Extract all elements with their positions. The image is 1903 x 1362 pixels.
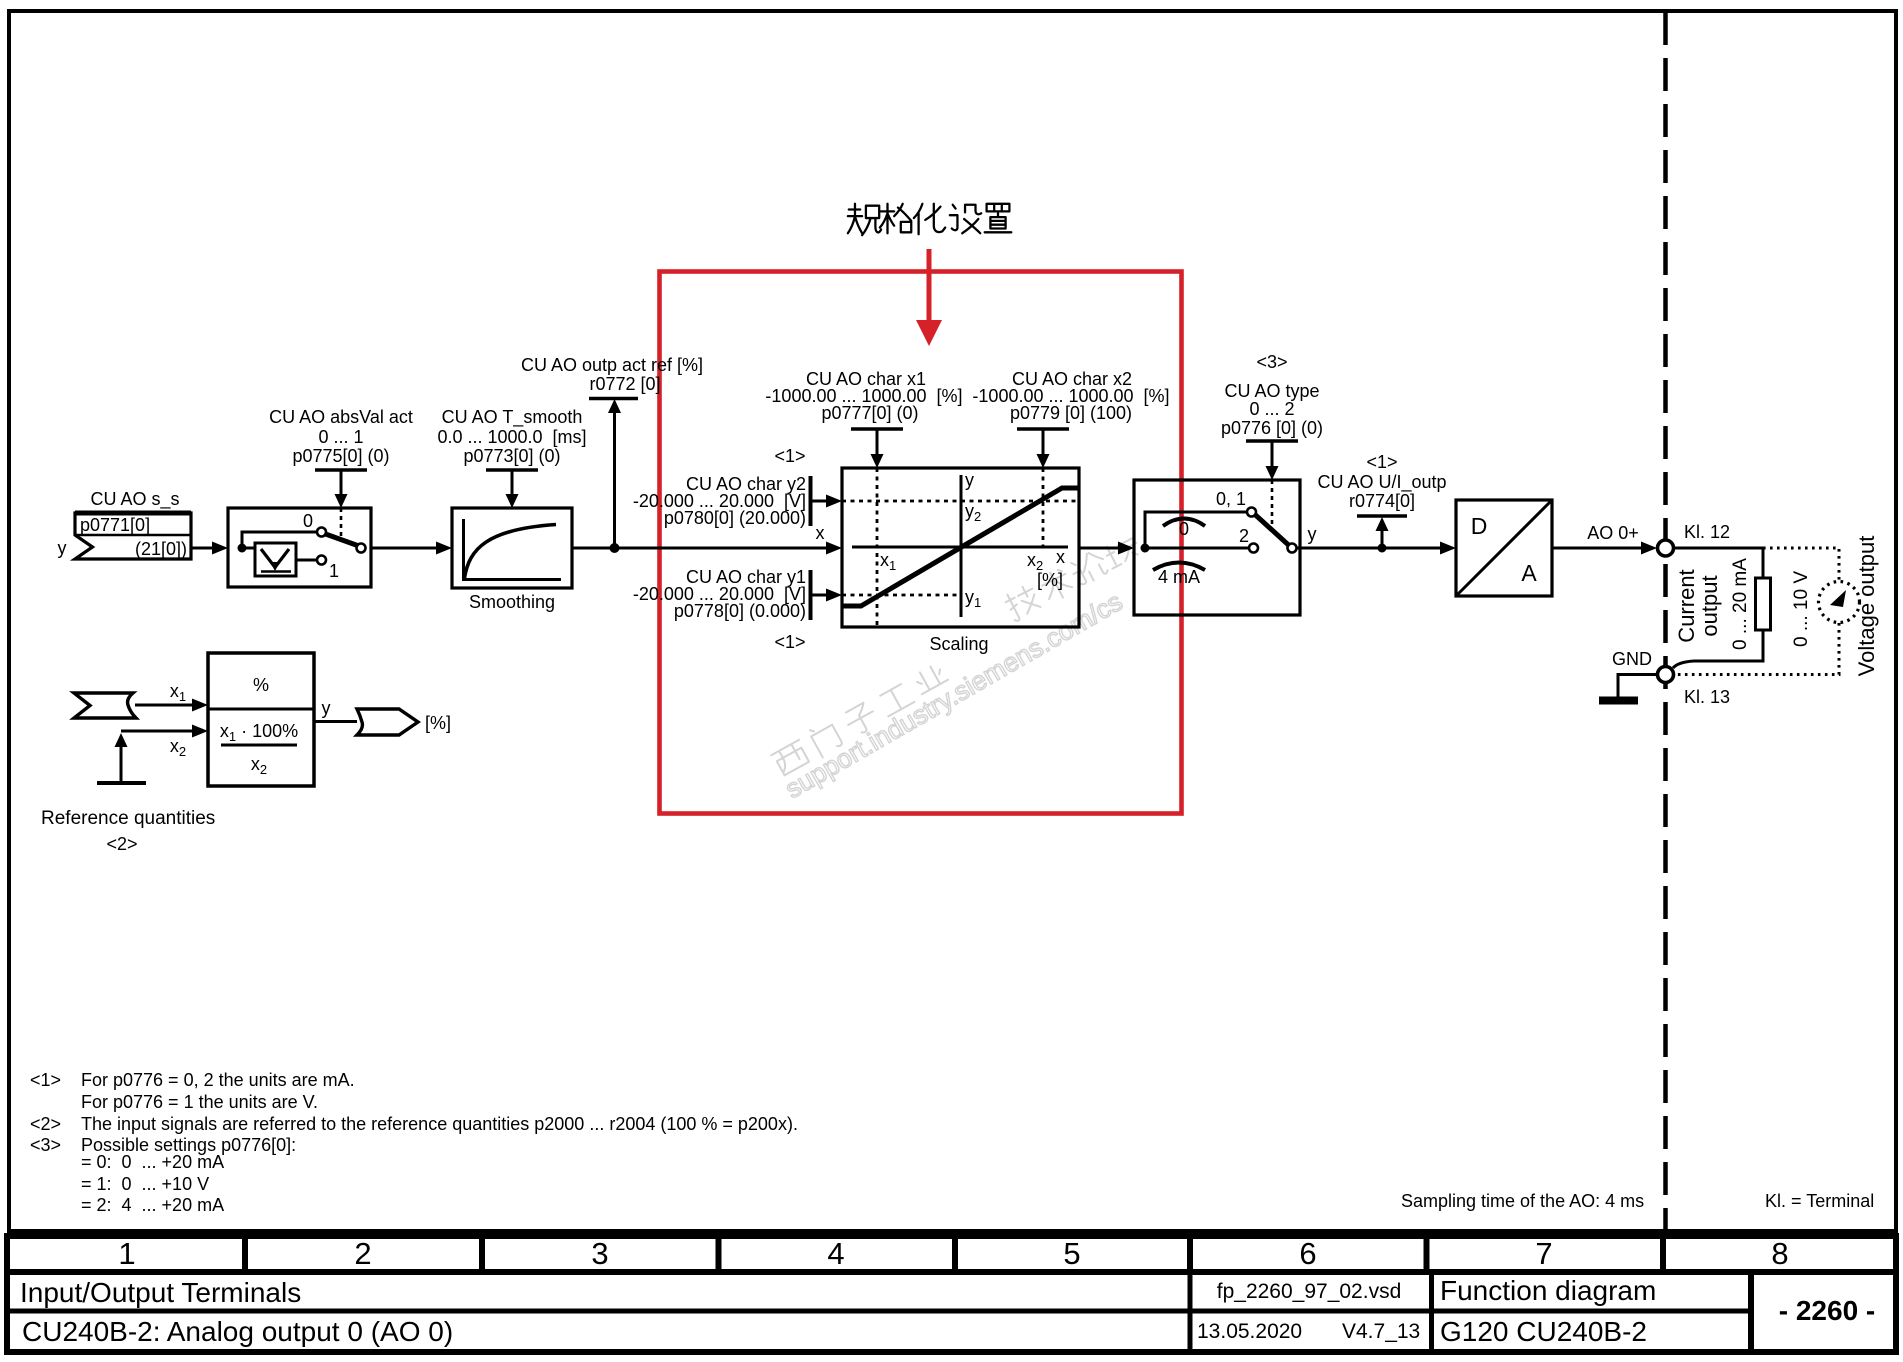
wire to contact 0 (242, 532, 316, 548)
signal sink r0772 CU AO outp act ref (521, 355, 703, 548)
reference quantities divider block (208, 653, 314, 786)
svg-text:CU AO absVal act: CU AO absVal act (269, 407, 413, 427)
D/A converter (1456, 500, 1552, 596)
svg-text:0 ... 1: 0 ... 1 (318, 427, 363, 447)
svg-text:= 2: 4 ... +20 mA: = 2: 4 ... +20 mA (81, 1195, 224, 1215)
wire selector to D/A (1297, 547, 1443, 550)
wire into abs element (242, 547, 255, 550)
svg-text:Current: Current (1674, 569, 1699, 642)
svg-text:A: A (1521, 560, 1537, 586)
voltage output annotation (1791, 536, 1879, 677)
wire absVal to smoothing (371, 547, 438, 550)
0 mA offset symbol (1163, 519, 1205, 527)
footnote 3 (30, 1135, 296, 1215)
voltmeter (1819, 582, 1860, 623)
svg-text:p0771[0]: p0771[0] (80, 515, 150, 535)
watermark url (780, 586, 1127, 804)
parameter p0780 CU AO char y2 (633, 474, 842, 528)
characteristic curve (843, 488, 1078, 606)
smoothing block (452, 508, 572, 612)
node to r0774 (1378, 544, 1387, 553)
svg-text:0.0 ... 1000.0 [ms]: 0.0 ... 1000.0 [ms] (437, 427, 586, 447)
input connector x1 (74, 693, 136, 718)
wire junction (1141, 544, 1150, 553)
svg-text:CU240B-2: Analog output 0 (AO: CU240B-2: Analog output 0 (AO 0) (22, 1316, 453, 1347)
svg-text:Sampling time of the AO: 4 ms: Sampling time of the AO: 4 ms (1401, 1191, 1644, 1211)
svg-text:1: 1 (118, 1236, 135, 1271)
svg-text:6: 6 (1299, 1236, 1316, 1271)
svg-text:Function diagram: Function diagram (1440, 1275, 1656, 1306)
svg-text:x: x (816, 523, 825, 543)
4 mA offset symbol (1153, 563, 1205, 571)
switch arm (1256, 515, 1289, 545)
svg-text:CU AO s_s: CU AO s_s (90, 489, 179, 510)
svg-text:For p0776 = 0, 2 the units are: For p0776 = 0, 2 the units are mA. (81, 1070, 355, 1090)
svg-text:V4.7_13: V4.7_13 (1342, 1320, 1420, 1343)
ground (1599, 649, 1658, 701)
terminal Kl. 12 (1658, 540, 1674, 556)
parameter p0778 CU AO char y1 (633, 567, 842, 621)
svg-text:D: D (1471, 513, 1488, 539)
svg-text:Kl. 13: Kl. 13 (1684, 687, 1730, 707)
svg-text:p0776 [0] (0): p0776 [0] (0) (1221, 418, 1323, 438)
node to r0772 (610, 543, 620, 553)
terminal Kl. 13 (1658, 667, 1674, 683)
contact 0,1 (1247, 508, 1256, 517)
svg-text:AO 0+: AO 0+ (1587, 523, 1639, 543)
footnote 2 (30, 1114, 798, 1134)
chinese annotation title: gui ge hua she zhi (848, 204, 1011, 235)
svg-text:fp_2260_97_02.vsd: fp_2260_97_02.vsd (1217, 1280, 1402, 1303)
svg-text:p0779 [0] (100): p0779 [0] (100) (1010, 403, 1132, 423)
wire resistor to terminal Kl.13 (1673, 630, 1763, 668)
parameter p0773 CU AO T_smooth (437, 407, 586, 508)
control dashed line (1271, 480, 1274, 528)
svg-text:<1>: <1> (774, 632, 805, 652)
svg-text:2: 2 (1239, 526, 1249, 546)
contact 1 (317, 556, 326, 565)
dotted voltage measuring loop (1674, 548, 1860, 675)
svg-text:r0774[0]: r0774[0] (1349, 491, 1415, 511)
parameter p0776 CU AO type (1221, 352, 1323, 480)
svg-text:<2>: <2> (30, 1114, 61, 1134)
svg-text:Kl. 12: Kl. 12 (1684, 522, 1730, 542)
svg-text:p0778[0] (0.000): p0778[0] (0.000) (674, 601, 806, 621)
parameter p0775 CU AO absVal act (269, 407, 413, 508)
svg-text:Voltage output: Voltage output (1854, 536, 1879, 677)
svg-text:0: 0 (1179, 519, 1189, 539)
svg-text:0: 0 (303, 511, 313, 531)
svg-text:x: x (1056, 547, 1065, 567)
svg-text:CU AO T_smooth: CU AO T_smooth (442, 407, 583, 428)
red annotation arrow (916, 249, 942, 346)
svg-text:p0773[0] (0): p0773[0] (0) (463, 446, 560, 466)
svg-text:G120 CU240B-2: G120 CU240B-2 (1440, 1316, 1647, 1347)
red annotation frame around scaling settings (660, 272, 1182, 814)
svg-text:5: 5 (1063, 1236, 1080, 1271)
absolute value / bypass switch block (228, 508, 371, 587)
svg-text:Reference quantities: Reference quantities (41, 808, 215, 829)
svg-text:= 1: 0 ... +10 V: = 1: 0 ... +10 V (81, 1174, 209, 1194)
parameter p0779 CU AO char x2 (972, 369, 1169, 468)
svg-text:Scaling: Scaling (929, 634, 988, 654)
svg-text:<3>: <3> (30, 1135, 61, 1155)
svg-text:Smoothing: Smoothing (469, 592, 555, 612)
svg-text:0 ... 2: 0 ... 2 (1249, 399, 1294, 419)
svg-text:(21[0]): (21[0]) (135, 539, 187, 559)
svg-text:2: 2 (354, 1236, 371, 1271)
svg-text:p0780[0] (20.000): p0780[0] (20.000) (664, 508, 806, 528)
page separator dashed line (1663, 12, 1668, 1231)
svg-text:Input/Output Terminals: Input/Output Terminals (20, 1277, 301, 1308)
parameter p0777 CU AO char x1 (765, 369, 962, 468)
output connector [%] (357, 709, 418, 735)
svg-text:The input signals are referred: The input signals are referred to the re… (81, 1114, 798, 1134)
svg-text:<1>: <1> (774, 446, 805, 466)
current offset selector block (1134, 480, 1300, 615)
wire D/A to terminal Kl.12 / net AO 0+ (1552, 523, 1657, 555)
svg-text:y: y (1308, 524, 1317, 544)
svg-text:For p0776 = 1 the units are V.: For p0776 = 1 the units are V. (81, 1092, 318, 1112)
svg-text:8: 8 (1771, 1236, 1788, 1271)
svg-text:[%]: [%] (425, 713, 451, 733)
switch pole (1288, 544, 1297, 553)
svg-text:3: 3 (591, 1236, 608, 1271)
svg-text:output: output (1697, 575, 1722, 636)
svg-text:0 ... 20 mA: 0 ... 20 mA (1730, 558, 1751, 650)
svg-text:<3>: <3> (1256, 352, 1287, 372)
svg-text:p0775[0] (0): p0775[0] (0) (292, 446, 389, 466)
absolute value element (255, 543, 296, 576)
svg-text:= 0: 0 ... +20 mA: = 0: 0 ... +20 mA (81, 1152, 224, 1172)
svg-text:CU AO U/I_outp: CU AO U/I_outp (1317, 472, 1446, 493)
current output annotation (1674, 558, 1751, 650)
svg-text:y: y (58, 538, 67, 558)
y axis (960, 475, 963, 617)
contact 0 (317, 528, 326, 537)
svg-text:<1>: <1> (1366, 452, 1397, 472)
svg-text:y: y (322, 698, 331, 718)
svg-text:CU AO type: CU AO type (1224, 381, 1319, 401)
svg-text:1: 1 (329, 561, 339, 581)
svg-text:4: 4 (827, 1236, 844, 1271)
load resistor (1756, 578, 1771, 630)
x axis (852, 546, 1068, 549)
title block (7, 1272, 1896, 1352)
wire scaling to selector (1079, 547, 1120, 550)
wire smoothing to scaling (572, 547, 828, 550)
svg-text:y: y (965, 470, 974, 490)
svg-text:[%]: [%] (1037, 570, 1063, 590)
wire junction (238, 544, 247, 553)
control dashed line (340, 508, 343, 538)
dashed y1 line (842, 594, 961, 597)
switch arm (326, 534, 358, 546)
svg-text:0, 1: 0, 1 (1216, 489, 1246, 509)
svg-text:- 2260 -: - 2260 - (1779, 1295, 1876, 1326)
svg-text:Kl. = Terminal: Kl. = Terminal (1765, 1191, 1874, 1211)
svg-text:GND: GND (1612, 649, 1652, 669)
svg-text:r0772 [0]: r0772 [0] (589, 374, 660, 394)
switch pole (357, 544, 366, 553)
reference source symbol (97, 733, 146, 783)
signal source connector p0771[0] (21[0]) CU AO s_s (75, 489, 191, 559)
svg-text:0 ... 10 V: 0 ... 10 V (1791, 571, 1812, 647)
wire Kl.12 to load resistor (1674, 548, 1764, 578)
signal sink r0774 CU AO U/I_outp (1317, 452, 1446, 548)
svg-text:CU AO outp act ref [%]: CU AO outp act ref [%] (521, 355, 703, 375)
wire to contact 0,1 (1145, 512, 1246, 548)
watermark (771, 534, 1142, 776)
wire abs to contact 1 (296, 559, 316, 562)
column number strip (7, 1236, 1896, 1272)
dashed x2 line (1042, 468, 1045, 547)
svg-text:<2>: <2> (106, 834, 137, 854)
svg-text:7: 7 (1535, 1236, 1552, 1271)
svg-text:p0777[0] (0): p0777[0] (0) (821, 403, 918, 423)
scaling block (842, 468, 1079, 627)
dashed y2 line (842, 500, 1079, 503)
contact 2 (1249, 544, 1258, 553)
svg-text:4 mA: 4 mA (1158, 567, 1200, 587)
dashed x1 line (876, 468, 879, 626)
wire to contact 2 (1145, 547, 1248, 550)
svg-text:%: % (253, 675, 269, 695)
wire input to absVal block (191, 547, 214, 550)
footnote 1 (30, 1070, 355, 1112)
svg-text:13.05.2020: 13.05.2020 (1197, 1320, 1302, 1343)
svg-text:<1>: <1> (30, 1070, 61, 1090)
